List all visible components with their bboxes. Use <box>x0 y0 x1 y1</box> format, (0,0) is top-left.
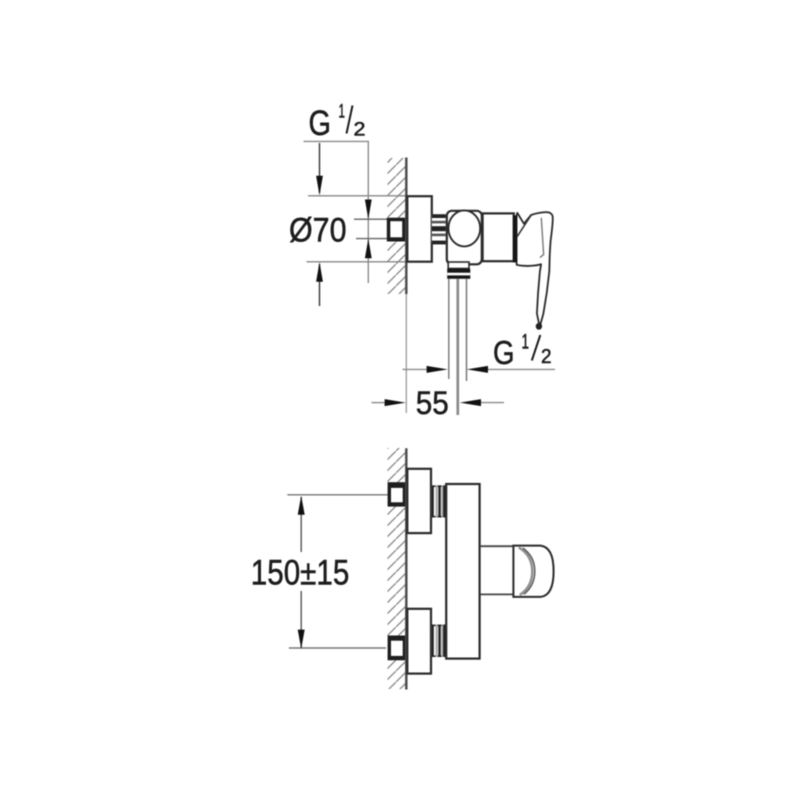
dimension 150±15 <box>251 496 349 649</box>
upper supply pipe / extension line (front view) <box>287 494 387 496</box>
cap fold diagonal <box>515 216 531 241</box>
wall line (front view) <box>405 448 408 689</box>
handle cap and lever (side view) <box>515 212 553 330</box>
handle stem (front view) <box>480 546 514 594</box>
knob dome arc outer <box>519 547 533 595</box>
svg-text:Ø70: Ø70 <box>289 211 347 249</box>
arrow down to pipe top <box>365 200 372 220</box>
valve body (side view) <box>447 211 482 264</box>
Ø70 arrow up (below flange) <box>316 262 323 306</box>
wall line (side view) <box>405 158 408 295</box>
seam between sleeve and handle <box>513 215 517 262</box>
svg-text:2: 2 <box>541 346 552 368</box>
cartridge dome circle <box>448 210 480 246</box>
arrow up to pipe bottom <box>365 239 372 259</box>
valve body (front view) <box>446 484 479 659</box>
extension line flange bottom (Ø70) <box>307 261 407 263</box>
leader line under G1/2 label <box>304 140 370 142</box>
lever tip <box>536 323 542 330</box>
svg-text:1: 1 <box>339 102 346 123</box>
upper union nut (front view) <box>388 482 407 506</box>
upper threaded nipple (front view) <box>431 485 445 517</box>
label G1/2 (supply thread, top) <box>309 102 366 144</box>
label G1/2 (outlet) <box>493 331 552 372</box>
sleeve (side view) <box>483 213 514 261</box>
dimension G1/2 outlet arrows <box>403 366 556 373</box>
dimension 55 <box>372 385 505 421</box>
handle knob (front view) <box>513 546 553 597</box>
svg-text:150±15: 150±15 <box>251 553 349 592</box>
upper escutcheon flange (front view) <box>407 469 431 533</box>
threaded nipple (side view) <box>432 214 446 244</box>
wall hatching (side view) <box>388 158 406 294</box>
lower supply pipe / extension line (front view) <box>289 647 386 649</box>
svg-text:2: 2 <box>354 120 366 141</box>
lower threaded nipple (front view) <box>431 625 445 657</box>
lower escutcheon flange (front view) <box>407 609 431 674</box>
outlet stub below body <box>448 262 469 269</box>
dimension line G1/2 vertical <box>367 141 369 283</box>
wall extension line down to 55 dimension <box>405 294 407 413</box>
escutcheon flange (side view) <box>407 196 432 262</box>
union nut (side view) <box>387 218 407 242</box>
lower union nut (front view) <box>388 636 407 661</box>
svg-text:1: 1 <box>522 331 530 354</box>
svg-text:G: G <box>493 334 515 371</box>
knob dome arc inner <box>523 548 535 594</box>
supply pipe outline (behind wall) <box>354 218 388 220</box>
outlet collar <box>447 269 470 279</box>
svg-text:G: G <box>309 104 332 143</box>
svg-text:55: 55 <box>416 385 449 421</box>
lever inner face line <box>540 218 544 258</box>
Ø70 arrow down (above flange) <box>316 143 323 196</box>
shower hose outlet lines <box>449 279 467 415</box>
extension line flange top (Ø70) <box>308 195 407 197</box>
wall hatching (front view) <box>388 448 406 689</box>
